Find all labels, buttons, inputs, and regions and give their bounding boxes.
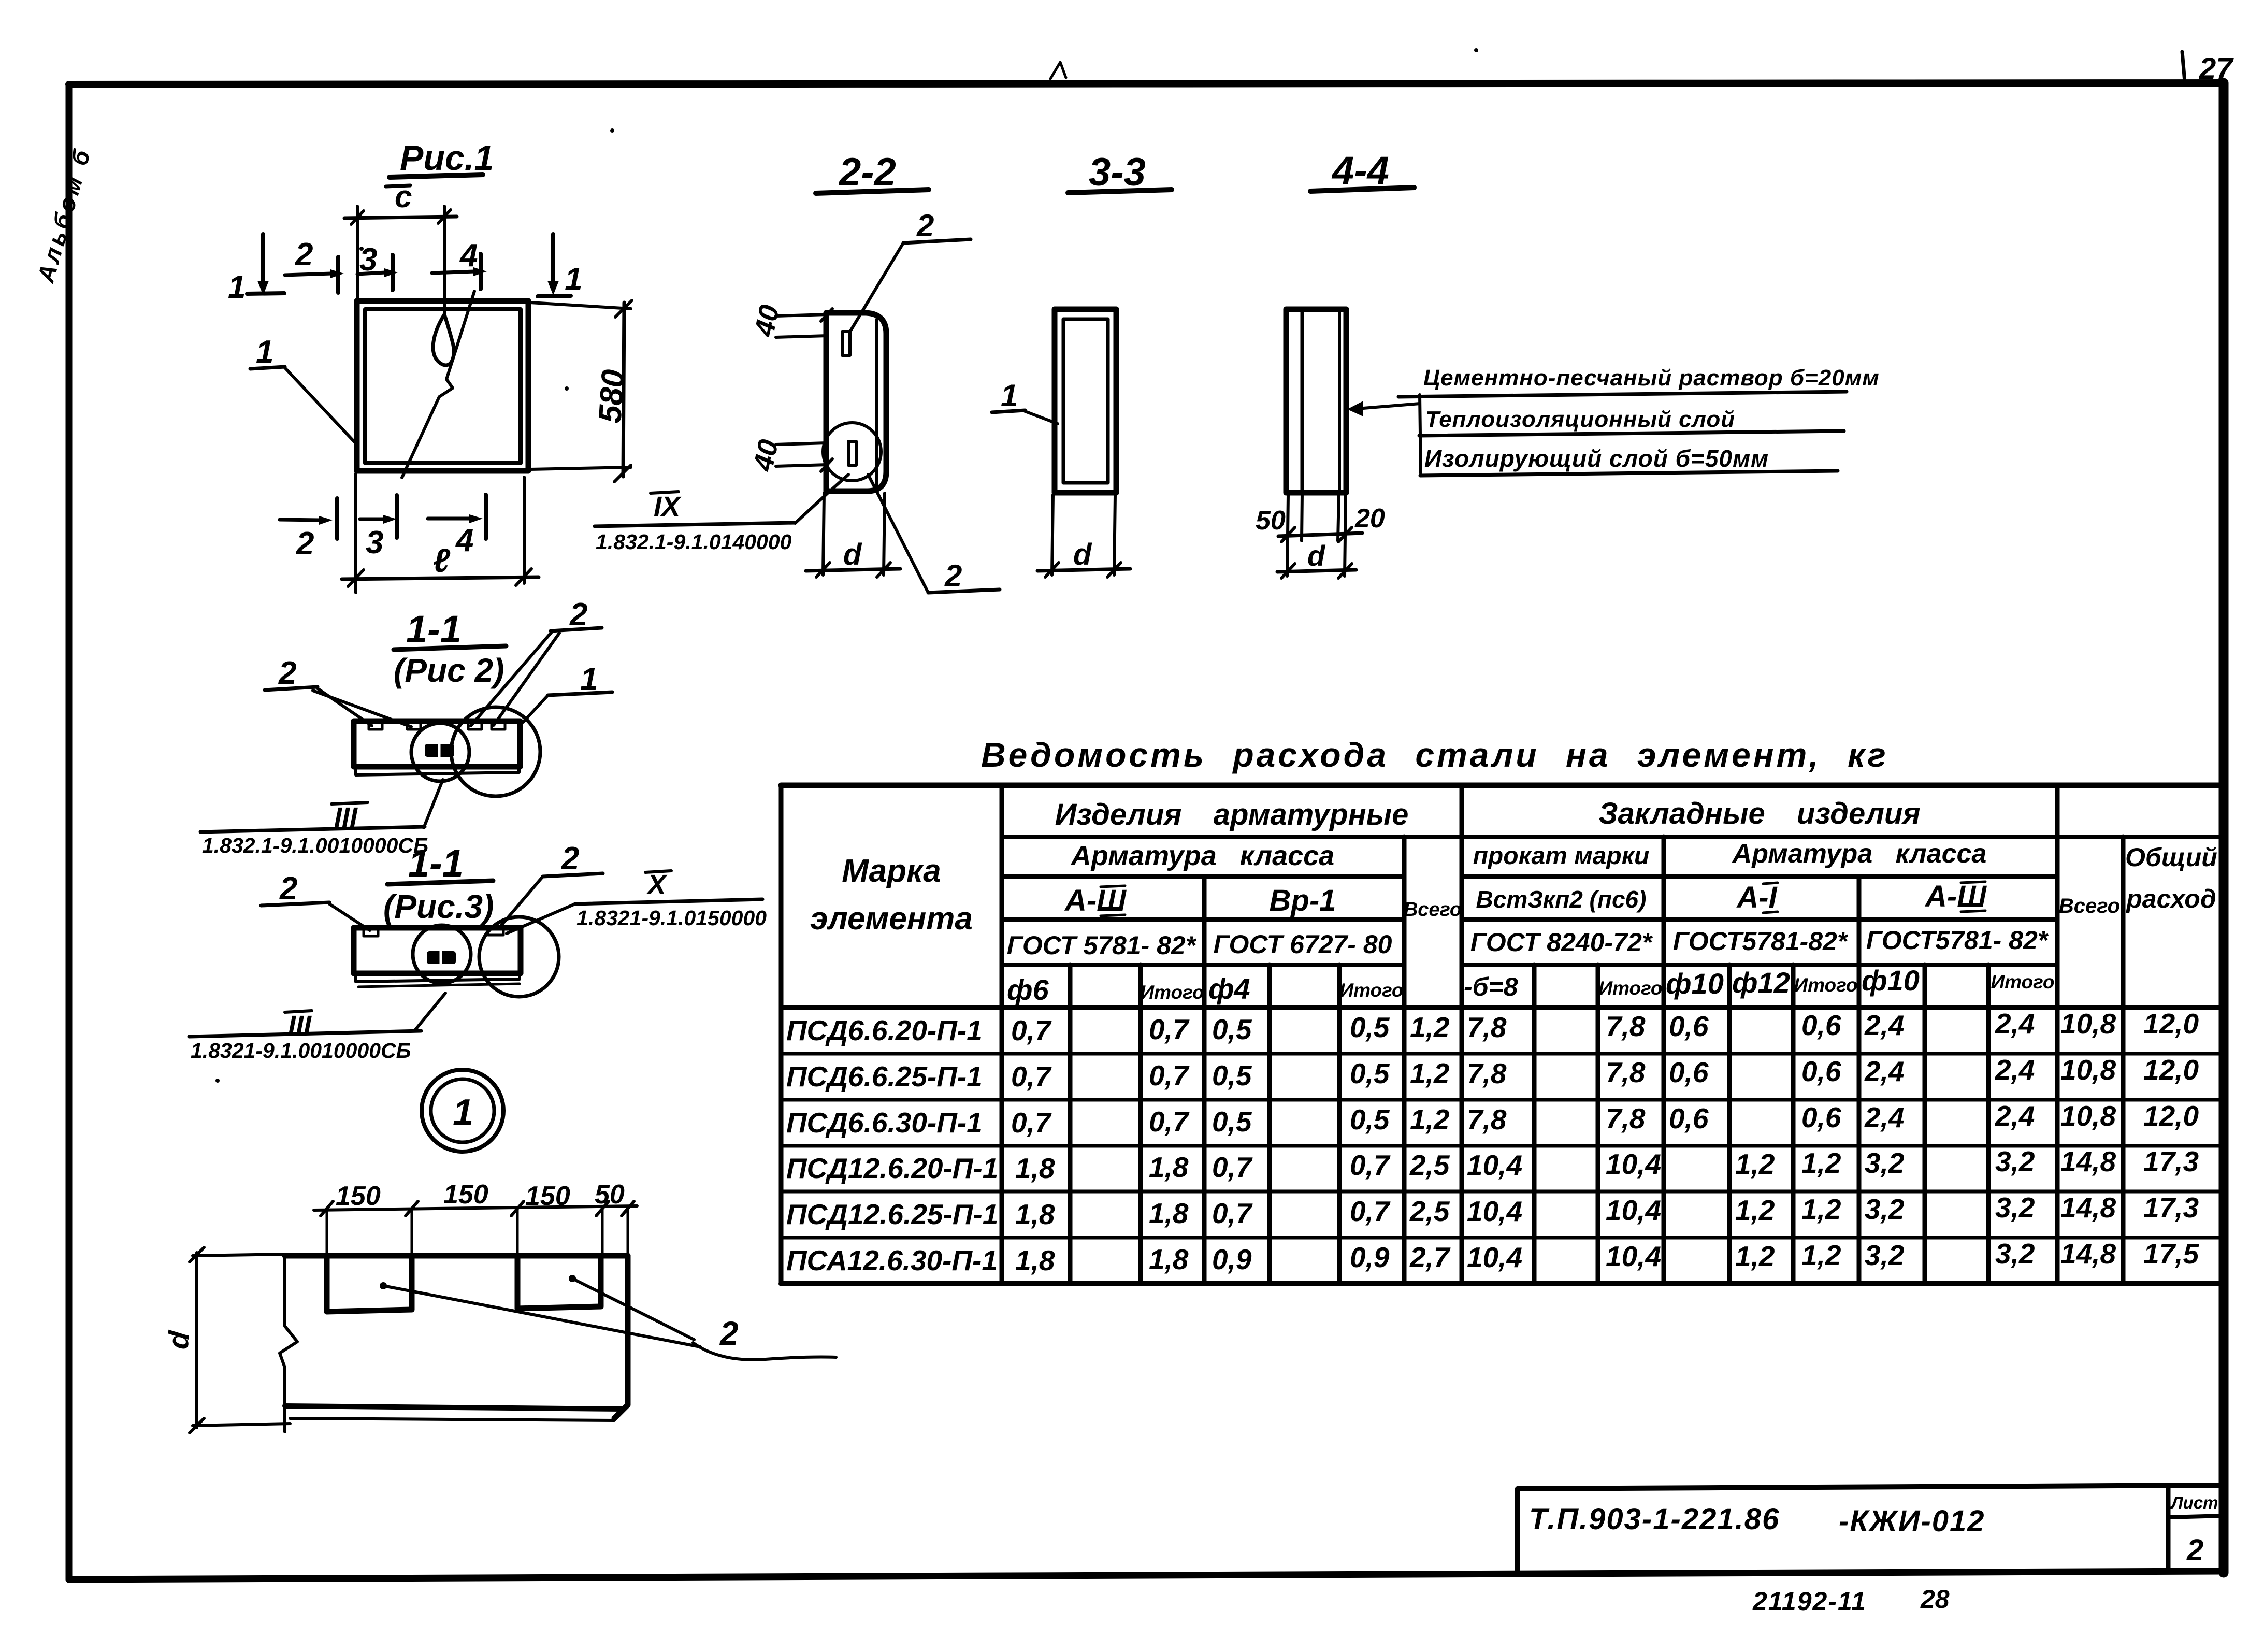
dimension d 3-3 line bbox=[1037, 569, 1130, 571]
dimension 580 slash bottom bbox=[614, 465, 631, 482]
svg-text:III: III bbox=[288, 1010, 312, 1041]
svg-text:2: 2 bbox=[279, 871, 297, 907]
svg-text:А-Ш: А-Ш bbox=[1924, 880, 1987, 913]
svg-text:50: 50 bbox=[1256, 506, 1286, 536]
svg-text:X: X bbox=[646, 869, 668, 900]
svg-text:2: 2 bbox=[296, 526, 314, 562]
svg-text:0,7: 0,7 bbox=[1011, 1014, 1052, 1046]
leader 1 underline bbox=[992, 410, 1025, 412]
section mark 2 bottom arrow bbox=[280, 520, 320, 520]
svg-text:1: 1 bbox=[1001, 378, 1018, 413]
svg-text:1,8: 1,8 bbox=[1149, 1197, 1189, 1229]
stray mark caret bbox=[1050, 62, 1066, 79]
svg-text:40: 40 bbox=[748, 302, 785, 339]
svg-text:0,7: 0,7 bbox=[1149, 1105, 1190, 1138]
svg-text:7,8: 7,8 bbox=[1467, 1103, 1507, 1136]
dimension L slash right bbox=[516, 569, 531, 585]
detail top dim line bbox=[314, 1206, 637, 1210]
leader 2 bottom line bbox=[868, 475, 928, 593]
frame border right bbox=[2219, 83, 2229, 1573]
svg-text:2,4: 2,4 bbox=[1995, 1008, 2035, 1040]
svg-text:2,4: 2,4 bbox=[1864, 1101, 1904, 1133]
bar a bottom strip bbox=[355, 768, 519, 775]
panel outer square bbox=[357, 301, 528, 471]
dimension d 3-3 slashes bbox=[1045, 563, 1059, 577]
section mark 1 right arrow bbox=[551, 234, 555, 282]
svg-text:Всего: Всего bbox=[1404, 899, 1462, 921]
svg-text:2,4: 2,4 bbox=[1864, 1055, 1904, 1087]
svg-text:17,5: 17,5 bbox=[2143, 1238, 2199, 1270]
svg-text:ф12: ф12 bbox=[1732, 966, 1790, 999]
figure 1 title underline stub bbox=[386, 185, 410, 186]
svg-text:0,5: 0,5 bbox=[1212, 1013, 1252, 1045]
svg-text:0,5: 0,5 bbox=[1350, 1103, 1390, 1136]
dimension d 2-2 slashes bbox=[816, 563, 830, 577]
svg-text:21192-11: 21192-11 bbox=[1752, 1587, 1867, 1616]
svg-text:1.8321-9.1.0150000: 1.8321-9.1.0150000 bbox=[576, 906, 767, 930]
data row 6 bbox=[786, 1238, 2199, 1276]
dimension d 4-4 slashes bbox=[1281, 564, 1295, 578]
svg-text:20: 20 bbox=[1354, 504, 1385, 534]
svg-text:ПСД12.6.20-П-1: ПСД12.6.20-П-1 bbox=[786, 1152, 998, 1184]
leader 2 detail tail bbox=[693, 1343, 836, 1360]
annotation line 3 underline bbox=[1420, 471, 1838, 476]
section mark 4 top arrow bbox=[432, 271, 474, 273]
leader 2 top underline bbox=[903, 239, 971, 243]
svg-text:4-4: 4-4 bbox=[1331, 149, 1389, 193]
annotation line 1 underline bbox=[1398, 392, 1847, 397]
bar a outline bbox=[354, 721, 520, 767]
svg-text:ПСА12.6.30-П-1: ПСА12.6.30-П-1 bbox=[786, 1244, 998, 1276]
leader 2a left underline bbox=[265, 687, 318, 690]
svg-text:0,6: 0,6 bbox=[1669, 1010, 1709, 1042]
svg-text:12,0: 12,0 bbox=[2143, 1054, 2199, 1086]
svg-text:2,7: 2,7 bbox=[1409, 1241, 1451, 1273]
dimension 580 line bbox=[623, 303, 624, 477]
svg-text:0,7: 0,7 bbox=[1149, 1013, 1190, 1045]
leader 2b right line bbox=[498, 877, 543, 929]
element left break line bbox=[280, 1256, 297, 1432]
section 4-4 layer line left bbox=[1301, 311, 1304, 491]
svg-text:10,8: 10,8 bbox=[2060, 1054, 2116, 1086]
data row 3 bbox=[786, 1100, 2199, 1139]
node IX overline bbox=[651, 492, 679, 493]
element bottom line upper bbox=[285, 1406, 623, 1409]
svg-text:1,2: 1,2 bbox=[1735, 1148, 1775, 1180]
dimension d 3-3 extensions bbox=[1052, 495, 1053, 575]
svg-text:1,2: 1,2 bbox=[1801, 1239, 1841, 1271]
svg-text:1: 1 bbox=[453, 1092, 473, 1133]
dimension 50-20 line bbox=[1278, 533, 1362, 536]
stray dot 2 bbox=[610, 128, 614, 133]
dimension 50-20 extensions bbox=[1287, 495, 1288, 576]
dimension 40 bottom lines bbox=[776, 443, 827, 444]
svg-text:10,4: 10,4 bbox=[1467, 1195, 1522, 1227]
svg-text:1: 1 bbox=[256, 334, 273, 370]
section 2-2 body bbox=[826, 313, 886, 491]
svg-text:Теплоизоляционный слой: Теплоизоляционный слой bbox=[1425, 407, 1735, 432]
leader 1 line bbox=[1025, 411, 1058, 424]
node IIIb underline bbox=[189, 1031, 421, 1037]
svg-text:0,6: 0,6 bbox=[1801, 1101, 1841, 1133]
svg-text:2: 2 bbox=[561, 841, 579, 877]
data row 2 bbox=[786, 1054, 2199, 1093]
svg-text:А-Ш: А-Ш bbox=[1064, 884, 1127, 917]
svg-text:Т.П.903-1-221.86: Т.П.903-1-221.86 bbox=[1529, 1502, 1780, 1536]
svg-text:Общий: Общий bbox=[2125, 843, 2217, 872]
svg-text:Рис.1: Рис.1 bbox=[400, 138, 494, 178]
dimension 50-20 slashes bbox=[1281, 527, 1295, 542]
annotation leader arrow bbox=[1347, 401, 1363, 416]
svg-text:1,8: 1,8 bbox=[1149, 1243, 1189, 1275]
svg-text:1,2: 1,2 bbox=[1410, 1011, 1450, 1043]
leader 1 underline bbox=[250, 367, 285, 369]
section 2-2 detail circle bbox=[823, 423, 881, 481]
dimension d 2-2 line bbox=[806, 569, 900, 571]
leader 2a right underline bbox=[551, 628, 602, 631]
section 2-2 underline bbox=[816, 190, 929, 193]
svg-text:0,7: 0,7 bbox=[1350, 1195, 1391, 1227]
svg-text:12,0: 12,0 bbox=[2143, 1100, 2199, 1132]
data row 4 bbox=[786, 1145, 2199, 1184]
dimension d detail slashes bbox=[190, 1247, 204, 1262]
svg-text:0,5: 0,5 bbox=[1212, 1059, 1252, 1091]
svg-text:10,4: 10,4 bbox=[1606, 1148, 1661, 1180]
svg-text:ф6: ф6 bbox=[1007, 973, 1049, 1006]
svg-text:Итого: Итого bbox=[1991, 971, 2054, 993]
svg-text:0,7: 0,7 bbox=[1011, 1107, 1052, 1139]
svg-text:ф10: ф10 bbox=[1862, 964, 1920, 997]
node circle 1 outer bbox=[422, 1070, 503, 1152]
svg-text:3,2: 3,2 bbox=[1865, 1239, 1905, 1271]
svg-text:1.8321-9.1.0010000СБ: 1.8321-9.1.0010000СБ bbox=[191, 1039, 411, 1062]
svg-text:Изолирующий слой б=50мм: Изолирующий слой б=50мм bbox=[1424, 445, 1769, 472]
svg-text:0,7: 0,7 bbox=[1212, 1197, 1253, 1229]
data row 5 bbox=[786, 1191, 2199, 1230]
element bottom line lower bbox=[290, 1418, 614, 1420]
svg-text:Закладные изделия: Закладные изделия bbox=[1598, 797, 1920, 830]
leader 2b left underline bbox=[261, 902, 329, 906]
svg-text:150: 150 bbox=[443, 1180, 488, 1210]
svg-text:Цементно-песчаный раствор б=20: Цементно-песчаный раствор б=20мм bbox=[1423, 365, 1880, 391]
node IIIb leader bbox=[414, 993, 445, 1031]
svg-text:(Рис 2): (Рис 2) bbox=[394, 652, 504, 689]
data row 1 bbox=[786, 1008, 2199, 1046]
node IIIa overline bbox=[331, 802, 368, 804]
svg-text:3,2: 3,2 bbox=[1995, 1145, 2035, 1177]
dimension 580 extension bottom bbox=[530, 467, 631, 469]
leader 2a right lines bbox=[471, 631, 552, 726]
svg-text:7,8: 7,8 bbox=[1467, 1011, 1507, 1043]
dimension d detail line bbox=[195, 1253, 198, 1428]
svg-text:ГОСТ 8240-72*: ГОСТ 8240-72* bbox=[1470, 928, 1653, 957]
dimension L line bbox=[342, 577, 539, 579]
svg-text:ПСД6.6.25-П-1: ПСД6.6.25-П-1 bbox=[786, 1060, 983, 1093]
dimension L extension right bbox=[523, 477, 526, 583]
svg-text:10,4: 10,4 bbox=[1467, 1149, 1522, 1181]
annotation connector vertical bbox=[1420, 395, 1421, 473]
dimension L slash left bbox=[348, 570, 364, 586]
bar b bottom strip bbox=[355, 974, 520, 982]
svg-text:1,8: 1,8 bbox=[1149, 1151, 1189, 1183]
svg-text:150: 150 bbox=[336, 1181, 381, 1211]
section mark 1 left arrow bbox=[261, 234, 265, 282]
annotation line 2 underline bbox=[1419, 431, 1844, 436]
dimension d detail ext bottom bbox=[193, 1424, 290, 1426]
svg-text:10,4: 10,4 bbox=[1606, 1240, 1661, 1272]
svg-text:2: 2 bbox=[278, 655, 296, 691]
svg-text:1: 1 bbox=[228, 269, 246, 305]
svg-text:3,2: 3,2 bbox=[1995, 1238, 2035, 1270]
svg-text:Итого: Итого bbox=[1794, 974, 1857, 996]
bar a centre plate bbox=[425, 744, 454, 757]
svg-text:2-2: 2-2 bbox=[838, 150, 896, 194]
section mark 4 bottom arrow bbox=[428, 517, 470, 521]
svg-text:ПСД12.6.25-П-1: ПСД12.6.25-П-1 bbox=[786, 1198, 998, 1230]
svg-text:IX: IX bbox=[654, 491, 682, 522]
bar a detail circle large bbox=[451, 707, 540, 796]
bar b outline bbox=[354, 928, 521, 973]
stray dot 1 bbox=[1474, 48, 1478, 52]
dimension c slash right bbox=[438, 210, 451, 223]
element top edge bbox=[285, 1253, 628, 1259]
bar b anchor marks bbox=[364, 929, 378, 936]
svg-text:1-1: 1-1 bbox=[408, 842, 464, 885]
svg-text:1,2: 1,2 bbox=[1801, 1147, 1841, 1179]
svg-text:0,7: 0,7 bbox=[1149, 1059, 1190, 1091]
svg-text:3: 3 bbox=[366, 525, 383, 561]
section 3-3 underline bbox=[1068, 190, 1172, 193]
anchor loop bbox=[433, 314, 454, 365]
node IIIa leader bbox=[424, 780, 443, 828]
node IIIb overline bbox=[285, 1011, 312, 1012]
leader 2 bottom underline bbox=[928, 590, 1000, 593]
section 4-4 body outer bbox=[1286, 309, 1346, 493]
svg-text:4: 4 bbox=[455, 523, 473, 558]
svg-text:0,9: 0,9 bbox=[1212, 1243, 1252, 1275]
svg-text:14,8: 14,8 bbox=[2060, 1145, 2116, 1177]
svg-text:2,4: 2,4 bbox=[1864, 1009, 1904, 1041]
figure 1 title underline bbox=[390, 175, 483, 177]
svg-text:-б=8: -б=8 bbox=[1464, 972, 1518, 1001]
svg-text:1,8: 1,8 bbox=[1015, 1244, 1055, 1276]
svg-text:7,8: 7,8 bbox=[1606, 1010, 1646, 1042]
title block list divider vertical bbox=[2166, 1487, 2171, 1572]
section 1-1a fraction line bbox=[394, 646, 506, 650]
svg-text:А-I: А-I bbox=[1736, 881, 1778, 914]
svg-text:ВстЗкп2 (пс6): ВстЗкп2 (пс6) bbox=[1476, 886, 1647, 913]
svg-text:2,5: 2,5 bbox=[1409, 1195, 1450, 1227]
svg-text:Итого: Итого bbox=[1339, 980, 1403, 1001]
svg-text:d: d bbox=[843, 538, 862, 571]
dimension 580 extension top bbox=[530, 303, 631, 309]
svg-text:17,3: 17,3 bbox=[2143, 1145, 2199, 1177]
svg-text:Арматура класса: Арматура класса bbox=[1070, 840, 1334, 871]
svg-text:Лист: Лист bbox=[2170, 1493, 2218, 1512]
detail dim extensions bbox=[326, 1208, 328, 1256]
page number tick bbox=[2182, 52, 2185, 82]
svg-text:Всего: Всего bbox=[2059, 895, 2120, 917]
svg-text:ГОСТ5781-82*: ГОСТ5781-82* bbox=[1673, 927, 1849, 956]
svg-text:2: 2 bbox=[944, 558, 962, 593]
svg-text:ℓ: ℓ bbox=[433, 542, 451, 579]
svg-text:Арматура класса: Арматура класса bbox=[1732, 839, 1987, 869]
title block list divider horizontal bbox=[2168, 1516, 2224, 1517]
svg-text:3,2: 3,2 bbox=[1995, 1191, 2035, 1224]
table grid horizontals bbox=[781, 785, 2221, 1284]
svg-text:расход: расход bbox=[2125, 884, 2216, 913]
section mark 3 bottom arrow bbox=[360, 518, 384, 521]
stray dot 5 bbox=[215, 1079, 220, 1083]
svg-text:Марка: Марка bbox=[842, 853, 941, 889]
node X underline bbox=[575, 899, 762, 904]
notch 2 bbox=[517, 1256, 601, 1309]
svg-text:10,4: 10,4 bbox=[1606, 1194, 1661, 1226]
section 3-3 body inner bbox=[1063, 319, 1108, 483]
dimension c extension right bbox=[443, 206, 446, 314]
bar b detail circle large bbox=[479, 917, 559, 997]
node circle 1 inner bbox=[431, 1079, 494, 1142]
svg-text:2,5: 2,5 bbox=[1409, 1149, 1450, 1181]
svg-text:10,8: 10,8 bbox=[2060, 1008, 2116, 1040]
svg-text:0,7: 0,7 bbox=[1212, 1151, 1253, 1183]
svg-text:Ведомость расхода стали на: Ведомость расхода стали на элемент, кг bbox=[981, 736, 1888, 774]
leader 2 top line bbox=[849, 243, 903, 333]
svg-text:1,2: 1,2 bbox=[1410, 1103, 1450, 1136]
leader 1a underline bbox=[548, 692, 612, 695]
section mark 3 top arrow bbox=[357, 272, 385, 274]
svg-text:1,2: 1,2 bbox=[1735, 1240, 1775, 1272]
svg-text:10,4: 10,4 bbox=[1467, 1241, 1522, 1273]
svg-text:580: 580 bbox=[592, 368, 631, 424]
stray dot 4 bbox=[565, 386, 569, 391]
svg-text:27: 27 bbox=[2199, 52, 2234, 85]
crack break line bbox=[402, 291, 474, 478]
bar b lower thin line bbox=[358, 984, 520, 987]
svg-text:Вр-1: Вр-1 bbox=[1270, 884, 1336, 917]
svg-text:3,2: 3,2 bbox=[1865, 1193, 1905, 1225]
svg-text:2: 2 bbox=[719, 1315, 739, 1352]
svg-text:0,9: 0,9 bbox=[1350, 1241, 1390, 1273]
dimension c extension left bbox=[356, 206, 359, 302]
dimension c slash left bbox=[351, 211, 364, 224]
frame border bottom bbox=[69, 1571, 2224, 1579]
svg-text:прокат марки: прокат марки bbox=[1473, 842, 1650, 870]
svg-text:ГОСТ5781- 82*: ГОСТ5781- 82* bbox=[1866, 926, 2049, 955]
section 4-4 layer line right bbox=[1338, 311, 1341, 491]
svg-text:0,5: 0,5 bbox=[1350, 1057, 1390, 1089]
svg-text:1,8: 1,8 bbox=[1015, 1152, 1055, 1184]
dimension L extension left bbox=[354, 473, 357, 593]
section 2-2 top anchor bbox=[842, 332, 850, 355]
svg-text:0,7: 0,7 bbox=[1011, 1060, 1052, 1093]
leader 2a left lines bbox=[318, 688, 372, 726]
dimension d detail ext top bbox=[193, 1254, 286, 1256]
notch 1 bbox=[327, 1256, 412, 1312]
svg-text:14,8: 14,8 bbox=[2060, 1238, 2116, 1270]
svg-text:ГОСТ 6727- 80: ГОСТ 6727- 80 bbox=[1214, 930, 1392, 959]
dimension c line bbox=[344, 217, 457, 218]
dimension 580 slash top bbox=[615, 300, 632, 317]
leader 1a line bbox=[523, 695, 548, 722]
svg-text:0,5: 0,5 bbox=[1212, 1105, 1252, 1138]
node IIIa underline bbox=[200, 827, 425, 832]
svg-text:элемента: элемента bbox=[810, 901, 973, 937]
svg-text:0,7: 0,7 bbox=[1350, 1149, 1391, 1181]
node X leader bbox=[507, 904, 575, 933]
stray dot 3 bbox=[359, 247, 364, 251]
svg-text:1,8: 1,8 bbox=[1015, 1198, 1055, 1230]
dimension 40 top lines bbox=[776, 314, 827, 316]
bar b detail circle small bbox=[413, 925, 471, 983]
svg-text:2,4: 2,4 bbox=[1995, 1100, 2035, 1132]
svg-text:ПСД6.6.30-П-1: ПСД6.6.30-П-1 bbox=[786, 1107, 983, 1139]
svg-text:12,0: 12,0 bbox=[2143, 1008, 2199, 1040]
leader 2b right underline bbox=[543, 873, 603, 877]
svg-text:40: 40 bbox=[747, 437, 784, 474]
svg-text:1.832.1-9.1.0140000: 1.832.1-9.1.0140000 bbox=[596, 530, 792, 554]
svg-text:ф4: ф4 bbox=[1208, 972, 1250, 1005]
svg-text:1,2: 1,2 bbox=[1410, 1057, 1450, 1089]
section 1-1b fraction line bbox=[387, 881, 493, 884]
svg-text:14,8: 14,8 bbox=[2060, 1191, 2116, 1224]
dimension d 4-4 line bbox=[1277, 570, 1356, 572]
leader 1 line bbox=[285, 368, 356, 444]
svg-text:Итого: Итого bbox=[1598, 978, 1662, 999]
svg-text:3-3: 3-3 bbox=[1089, 150, 1146, 194]
svg-text:0,5: 0,5 bbox=[1350, 1011, 1390, 1043]
frame border top bbox=[69, 83, 2224, 84]
svg-text:17,3: 17,3 bbox=[2143, 1191, 2199, 1224]
title block top line bbox=[1518, 1485, 2224, 1489]
svg-text:10,8: 10,8 bbox=[2060, 1100, 2116, 1132]
element right edge and chamfer bbox=[614, 1256, 628, 1418]
svg-text:2: 2 bbox=[916, 208, 934, 243]
section 4-4 underline bbox=[1310, 188, 1414, 191]
svg-text:28: 28 bbox=[1920, 1585, 1950, 1614]
leader 2 detail lines bbox=[383, 1286, 700, 1347]
detail top dim slashes bbox=[321, 1201, 333, 1216]
bar b centre plate bbox=[427, 951, 456, 964]
svg-text:1.832.1-9.1.0010000СБ: 1.832.1-9.1.0010000СБ bbox=[202, 834, 428, 857]
title block left line bbox=[1515, 1489, 1520, 1572]
svg-text:1,2: 1,2 bbox=[1735, 1194, 1775, 1226]
svg-text:2: 2 bbox=[2186, 1533, 2203, 1567]
svg-text:ГОСТ 5781- 82*: ГОСТ 5781- 82* bbox=[1007, 931, 1197, 960]
panel inner square bbox=[365, 309, 521, 463]
svg-text:ПСД6.6.20-П-1: ПСД6.6.20-П-1 bbox=[786, 1014, 983, 1046]
table grid verticals bbox=[781, 785, 2221, 1284]
svg-text:-КЖИ-012: -КЖИ-012 bbox=[1839, 1504, 1985, 1538]
node X overline bbox=[645, 871, 671, 872]
section 2-2 inner wall line bbox=[875, 319, 878, 486]
section 2-2 bottom anchor bbox=[848, 441, 856, 465]
dimension d 2-2 extensions bbox=[823, 493, 824, 575]
svg-text:(Рис.3): (Рис.3) bbox=[383, 888, 494, 925]
svg-text:2: 2 bbox=[295, 237, 313, 272]
node IX leader bbox=[795, 475, 848, 523]
svg-text:0,6: 0,6 bbox=[1669, 1102, 1709, 1134]
svg-text:3,2: 3,2 bbox=[1865, 1147, 1905, 1179]
svg-text:1-1: 1-1 bbox=[406, 608, 462, 651]
svg-text:0,6: 0,6 bbox=[1801, 1055, 1841, 1087]
svg-text:7,8: 7,8 bbox=[1606, 1056, 1646, 1088]
svg-text:ф10: ф10 bbox=[1666, 967, 1724, 1000]
svg-text:Итого: Итого bbox=[1140, 982, 1204, 1003]
bar a anchor marks bbox=[369, 723, 382, 729]
leader 2b left line bbox=[329, 904, 370, 930]
bar a detail circle small bbox=[411, 723, 469, 781]
